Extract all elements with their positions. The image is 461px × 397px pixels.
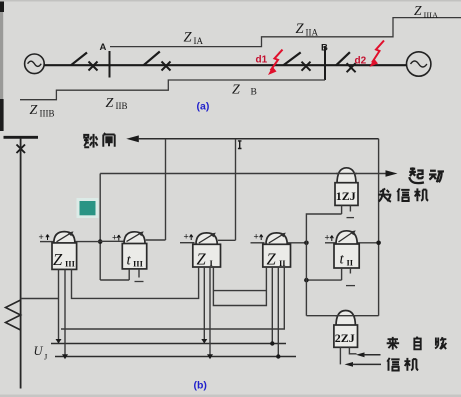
bus A xyxy=(109,51,111,78)
svg-text:(b): (b) xyxy=(194,380,207,392)
measuring element Z_I xyxy=(180,232,236,269)
label 来自收 (from ... receiver) xyxy=(387,337,447,350)
svg-text:+: + xyxy=(254,232,259,242)
leg terminal arrows on L3 xyxy=(62,354,213,359)
label 起动 (start) xyxy=(409,167,444,183)
svg-text:Z: Z xyxy=(53,250,63,269)
svg-text:+: + xyxy=(325,233,330,243)
svg-text:Z: Z xyxy=(30,103,38,118)
breaker X on feeder xyxy=(17,145,26,154)
wire: 2ZJ hanger over dome xyxy=(335,315,357,317)
teal cursor square xyxy=(77,198,99,218)
fault d2 lightning bolt xyxy=(370,41,385,68)
disconnector blade near GA xyxy=(71,53,87,66)
svg-text:1ZJ: 1ZJ xyxy=(336,189,356,203)
wire: Z_III output drop xyxy=(99,174,101,281)
svg-text:III: III xyxy=(133,259,144,269)
svg-text:+: + xyxy=(184,232,189,242)
bus B xyxy=(324,46,326,80)
svg-text:(a): (a) xyxy=(197,101,210,113)
disconnector blade left of bus B xyxy=(283,52,300,65)
wire: t_II coil return to left xyxy=(306,279,341,281)
wire: main transmission line A-B xyxy=(44,64,406,66)
svg-text:+: + xyxy=(39,232,44,242)
receiver input lower arrow xyxy=(345,362,382,367)
label 信机 (receiver) xyxy=(387,358,418,371)
node: junction t_II return xyxy=(304,278,309,283)
svg-text:B: B xyxy=(251,88,257,98)
wire: t_III output up to trip bus xyxy=(165,139,167,240)
disconnector blade right of bus B xyxy=(336,52,350,65)
wire: 2ZJ hanger xyxy=(306,315,378,317)
breaker X1 xyxy=(89,62,98,71)
svg-text:Z: Z xyxy=(232,83,240,98)
bus bar (left, section b) xyxy=(4,136,39,139)
svg-text:U: U xyxy=(34,344,44,358)
measuring element Z_II xyxy=(251,232,307,269)
fault d1 lightning bolt xyxy=(268,50,283,75)
breaker X3 xyxy=(302,62,311,71)
label Z_IA xyxy=(184,30,204,47)
svg-text:Z: Z xyxy=(414,3,422,18)
svg-text:2ZJ: 2ZJ xyxy=(335,331,355,345)
svg-text:II: II xyxy=(279,258,286,268)
lower connection U1: Z_III to Z_I xyxy=(72,267,199,298)
Z_III legs xyxy=(59,269,66,356)
svg-text:d1: d1 xyxy=(256,55,268,66)
label Z_IIIA xyxy=(414,3,439,20)
svg-text:B: B xyxy=(321,43,328,54)
leg terminal arrows on L2 xyxy=(56,339,208,344)
disconnector blade right of bus A xyxy=(144,52,160,66)
svg-text:IIIA: IIIA xyxy=(424,10,439,20)
receiver input upper arrow xyxy=(356,352,381,357)
svg-text:A: A xyxy=(100,42,107,53)
svg-text:III: III xyxy=(65,259,76,269)
wire: feeder tap to Z_III leg xyxy=(21,298,59,300)
wire: stepped reach characteristic of protection B xyxy=(20,80,325,100)
svg-text:+: + xyxy=(112,233,117,243)
label Z_IIB xyxy=(106,96,128,111)
label Z_IIIB xyxy=(30,103,55,119)
lower connection U2: Z_I to Z_II ladder xyxy=(213,267,266,306)
generator GA (left source) xyxy=(25,54,45,74)
node: Z_II leg on L3 xyxy=(276,354,280,358)
label I on trip bus xyxy=(238,141,242,149)
svg-text:Z: Z xyxy=(296,21,305,37)
intermediate relay 2ZJ xyxy=(334,311,358,365)
label Z_IIA xyxy=(296,21,319,38)
wire: stepped reach characteristic of protection A xyxy=(110,18,461,47)
label U_J xyxy=(34,344,49,362)
wire: L1 bus xyxy=(61,267,284,329)
node: Z_III output junction xyxy=(98,239,103,244)
svg-text:II: II xyxy=(347,258,354,268)
measuring element Z_III xyxy=(39,231,101,269)
carrier start arrowhead xyxy=(386,170,398,177)
generator GB (right source) xyxy=(407,52,431,76)
svg-text:IIIB: IIIB xyxy=(40,109,55,119)
svg-text:Z: Z xyxy=(106,96,114,111)
label Z_B xyxy=(232,83,257,98)
node: junction Z_II / t_II input xyxy=(304,241,309,246)
svg-text:IA: IA xyxy=(194,36,204,46)
svg-text:Z: Z xyxy=(197,250,207,269)
wire: L2 measurement bus xyxy=(51,343,286,345)
label 跳闸 (trip) xyxy=(84,133,115,148)
svg-text:Z: Z xyxy=(184,30,193,46)
wire: feeder vertical xyxy=(20,138,22,389)
wire: 1ZJ coil return xyxy=(306,214,341,316)
time element t_II xyxy=(325,230,379,285)
CT zigzag on feeder xyxy=(6,300,21,330)
svg-text:d2: d2 xyxy=(355,56,367,67)
wire: ladder rung xyxy=(213,290,266,292)
wire: trip bus xyxy=(138,138,379,140)
trip arrowhead xyxy=(126,135,139,142)
node: junction t_II output / trip drop xyxy=(376,241,381,246)
wire: L3 measurement bus xyxy=(55,356,296,358)
label 发信机 (transmitter) xyxy=(378,188,428,201)
wire: carrier start bus over 1ZJ dome xyxy=(336,173,357,175)
svg-text:IIA: IIA xyxy=(306,28,319,38)
Z_II legs xyxy=(272,267,278,357)
svg-text:Z: Z xyxy=(267,250,277,269)
intermediate relay 1ZJ xyxy=(335,168,358,218)
wire: to t_III coil bottom xyxy=(100,279,129,281)
Z_I legs xyxy=(204,267,210,357)
breaker X2 xyxy=(162,62,171,71)
wire: carrier start bus xyxy=(100,173,386,175)
svg-text:IIB: IIB xyxy=(116,101,128,111)
node: Z_II leg on L2 xyxy=(270,341,274,345)
wire: trip bus right drop xyxy=(378,139,380,316)
breaker X4 xyxy=(347,63,356,72)
wire: Z_I output up to trip bus xyxy=(235,139,237,241)
time element t_III xyxy=(100,231,165,281)
